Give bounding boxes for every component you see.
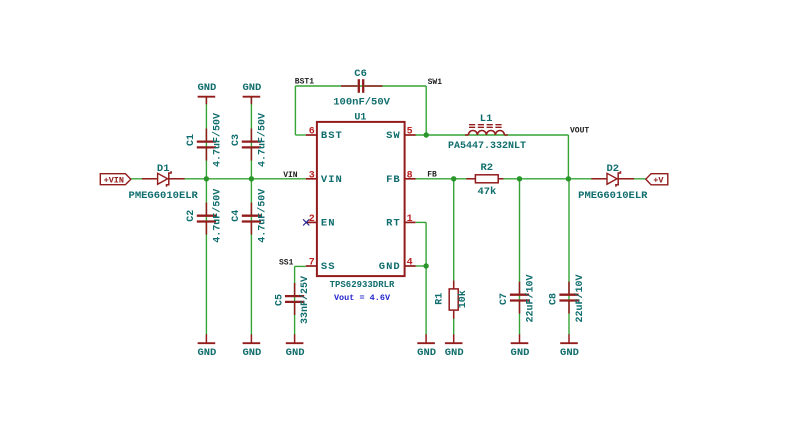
svg-text:GND: GND	[242, 347, 261, 359]
svg-text:L1: L1	[480, 113, 493, 125]
svg-text:C2: C2	[186, 210, 197, 222]
svg-text:GND: GND	[286, 347, 305, 359]
svg-text:GND: GND	[197, 82, 216, 94]
inductor L1	[448, 113, 526, 152]
ground	[197, 82, 216, 104]
ground	[286, 334, 305, 359]
capacitor C8	[549, 274, 586, 322]
wire VOUT drop	[567, 135, 569, 179]
svg-text:33nF/25V: 33nF/25V	[299, 276, 311, 324]
pin 1 RT	[386, 214, 416, 230]
svg-text:R1: R1	[435, 293, 446, 305]
svg-text:EN: EN	[321, 218, 336, 230]
svg-text:GND: GND	[511, 347, 530, 359]
wire RT to GND vertical	[425, 222, 427, 335]
wire SS horizontal	[295, 265, 306, 267]
svg-text:GND: GND	[197, 347, 216, 359]
wire C8 column	[568, 179, 570, 335]
svg-text:PA5447.332NLT: PA5447.332NLT	[448, 141, 526, 152]
wire SW1 vertical	[425, 86, 427, 135]
op-amp U1 TPS62933DRLR body	[317, 112, 405, 289]
svg-text:FB: FB	[427, 171, 437, 180]
svg-text:D1: D1	[157, 163, 170, 175]
ground	[417, 334, 436, 359]
svg-text:GND: GND	[417, 347, 436, 359]
capacitor C6	[333, 68, 390, 108]
svg-text:GND: GND	[560, 347, 579, 359]
junction C7 on FB rail	[517, 176, 522, 181]
svg-text:GND: GND	[379, 261, 401, 273]
svg-text:GND: GND	[445, 347, 464, 359]
resistor R1 10k	[435, 281, 469, 319]
capacitor C5	[275, 276, 312, 324]
wire pin4 to junction	[415, 265, 426, 267]
wire FB rail	[415, 178, 645, 180]
ground	[560, 334, 579, 359]
svg-text:GND: GND	[242, 82, 261, 94]
svg-text:D2: D2	[606, 163, 619, 175]
junction C1/C2 on VIN rail	[204, 176, 209, 181]
svg-text:22uF/10V: 22uF/10V	[574, 274, 586, 322]
svg-text:C3: C3	[231, 134, 242, 146]
svg-text:BST1: BST1	[295, 78, 314, 87]
wire BST horizontal	[295, 134, 305, 136]
svg-text:BST: BST	[321, 130, 343, 142]
ground	[242, 82, 261, 104]
svg-text:47k: 47k	[477, 186, 496, 198]
junction R1 on FB rail	[451, 176, 456, 181]
ground	[445, 334, 464, 359]
svg-text:22uF/10V: 22uF/10V	[525, 274, 537, 322]
svg-text:C5: C5	[275, 294, 286, 306]
power flag +VIN	[100, 174, 131, 186]
svg-text:10k: 10k	[457, 290, 469, 308]
pin 3 VIN	[306, 170, 343, 186]
svg-text:PMEG6010ELR: PMEG6010ELR	[578, 190, 648, 202]
svg-text:5: 5	[407, 127, 413, 138]
svg-text:Vout = 4.6V: Vout = 4.6V	[334, 293, 391, 303]
wire C3 column to top GND	[250, 97, 252, 179]
wire C1 column to top GND	[205, 97, 207, 179]
wire C4 column to GND	[250, 179, 252, 335]
wire RT horizontal	[416, 221, 426, 223]
wire R1 column	[453, 179, 455, 335]
wire C7 column	[519, 179, 521, 335]
capacitor C4	[231, 189, 269, 243]
ground	[511, 334, 530, 359]
wire SW to L1	[415, 134, 568, 136]
capacitor C2	[186, 189, 224, 243]
svg-text:C4: C4	[231, 210, 242, 222]
svg-text:VIN: VIN	[283, 171, 298, 180]
svg-text:3: 3	[309, 170, 315, 181]
svg-text:100nF/50V: 100nF/50V	[333, 96, 390, 108]
svg-text:C7: C7	[499, 293, 510, 305]
svg-text:VOUT: VOUT	[570, 127, 589, 136]
pin 2 EN	[306, 214, 336, 230]
svg-text:TPS62933DRLR: TPS62933DRLR	[330, 280, 395, 290]
junction VOUT on FB rail	[566, 176, 571, 181]
pin 6 BST	[306, 127, 343, 143]
svg-text:+VIN: +VIN	[104, 175, 124, 185]
junction SW1	[424, 132, 429, 137]
svg-text:RT: RT	[386, 218, 401, 230]
svg-text:2: 2	[309, 214, 315, 225]
capacitor C7	[499, 274, 537, 322]
pin 7 SS	[306, 258, 336, 274]
svg-text:SW1: SW1	[428, 78, 443, 87]
schottky diode D1	[129, 163, 199, 202]
wire C6 rail BST1-SW1	[295, 85, 426, 87]
svg-text:SS1: SS1	[279, 258, 294, 267]
capacitor C1	[186, 113, 224, 167]
junction RT/GND pin	[423, 263, 428, 268]
junction C3/C4 on VIN rail	[249, 176, 254, 181]
svg-text:C1: C1	[186, 134, 197, 146]
svg-text:C6: C6	[354, 68, 367, 80]
wire VIN rail	[131, 178, 306, 180]
svg-text:SS: SS	[321, 261, 336, 273]
ground	[242, 334, 261, 359]
svg-text:7: 7	[309, 258, 315, 269]
svg-text:8: 8	[407, 170, 413, 181]
wire BST vertical	[294, 86, 296, 135]
svg-text:U1: U1	[354, 112, 366, 123]
svg-text:R2: R2	[480, 162, 493, 174]
svg-text:1: 1	[407, 214, 413, 225]
pin 4 GND	[379, 258, 416, 274]
svg-text:SW: SW	[386, 130, 401, 142]
wire C2 column to GND	[205, 179, 207, 335]
pin 5 SW	[386, 127, 416, 143]
schottky diode D2	[578, 163, 648, 202]
svg-text:VIN: VIN	[321, 174, 343, 186]
resistor R2 47k	[466, 162, 503, 198]
ground	[197, 334, 216, 359]
capacitor C3	[231, 113, 269, 167]
svg-text:FB: FB	[386, 174, 401, 186]
svg-text:C8: C8	[549, 293, 560, 305]
svg-text:PMEG6010ELR: PMEG6010ELR	[129, 190, 199, 202]
no-connect X on EN pin	[303, 219, 309, 225]
wire C5 column	[294, 266, 296, 335]
svg-text:+V: +V	[653, 175, 664, 185]
svg-text:4.7uF/50V: 4.7uF/50V	[257, 113, 269, 167]
svg-text:4: 4	[407, 258, 413, 269]
pin 8 FB	[386, 170, 416, 186]
svg-text:4.7uF/50V: 4.7uF/50V	[212, 189, 224, 243]
svg-text:6: 6	[309, 127, 315, 138]
svg-text:4.7uF/50V: 4.7uF/50V	[257, 189, 269, 243]
svg-text:4.7uF/50V: 4.7uF/50V	[212, 113, 224, 167]
power flag +V	[646, 174, 668, 186]
